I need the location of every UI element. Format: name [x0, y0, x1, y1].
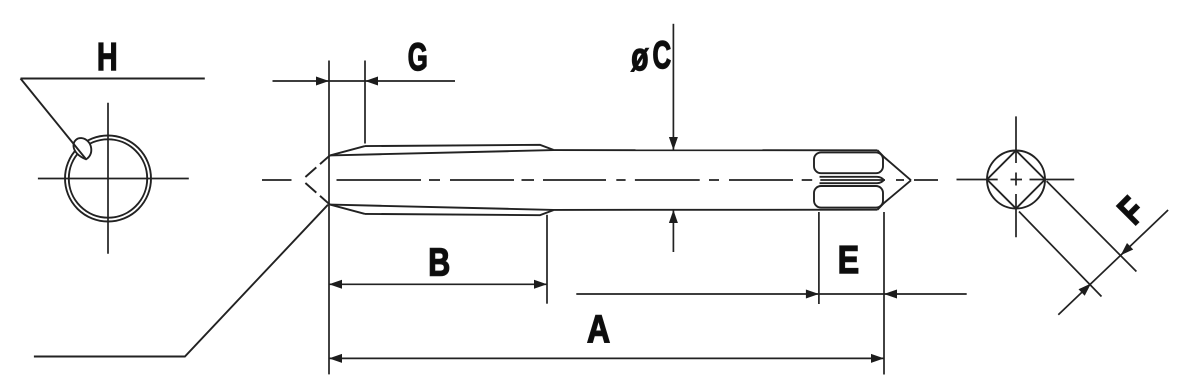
- svg-text:E: E: [838, 238, 859, 282]
- svg-text:G: G: [408, 36, 428, 80]
- svg-text:B: B: [428, 241, 450, 284]
- svg-text:C: C: [653, 34, 672, 78]
- svg-text:ø: ø: [631, 36, 648, 80]
- svg-text:A: A: [587, 308, 610, 352]
- svg-text:H: H: [97, 36, 118, 79]
